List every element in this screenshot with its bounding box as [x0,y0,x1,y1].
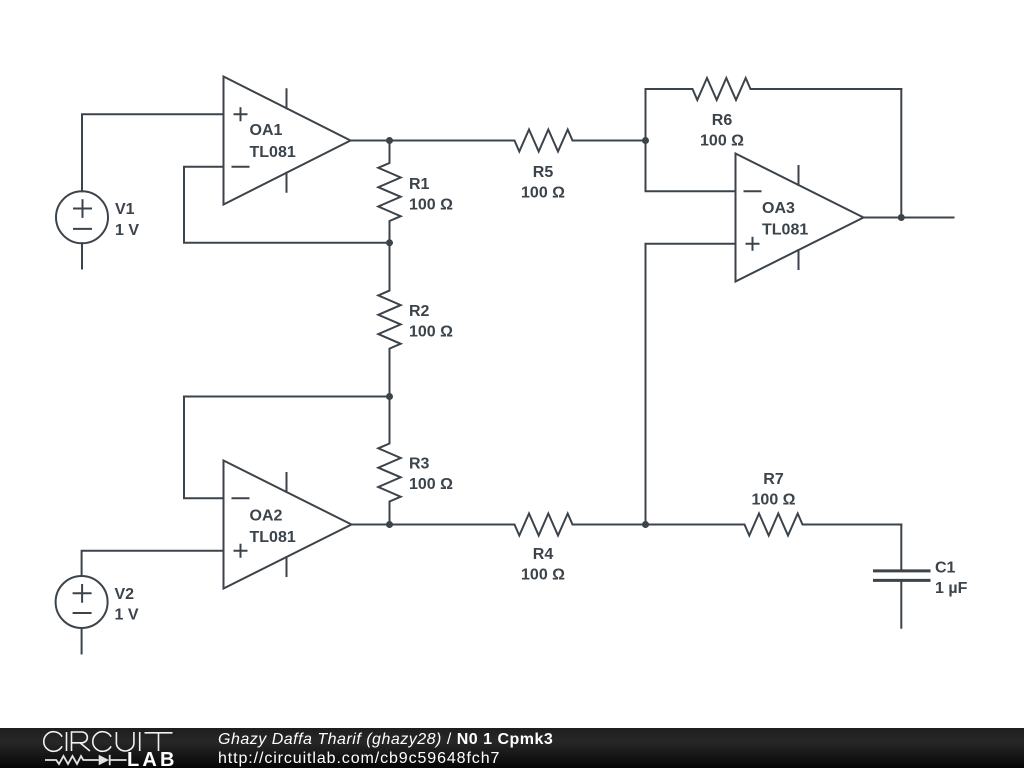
svg-text:R5: R5 [533,164,554,181]
svg-text:OA1: OA1 [250,122,283,139]
svg-text:OA2: OA2 [250,508,283,525]
svg-text:1 µF: 1 µF [935,580,968,597]
svg-text:1 V: 1 V [115,222,139,239]
svg-text:R6: R6 [712,112,733,129]
svg-text:R1: R1 [409,176,430,193]
svg-text:R3: R3 [409,456,430,473]
svg-text:V1: V1 [115,201,135,218]
svg-text:V2: V2 [115,586,135,603]
svg-text:1 V: 1 V [115,607,139,624]
svg-text:100 Ω: 100 Ω [521,567,565,584]
svg-text:100 Ω: 100 Ω [409,197,453,214]
svg-text:R2: R2 [409,303,430,320]
svg-text:100 Ω: 100 Ω [700,133,744,150]
svg-text:LAB: LAB [127,749,178,768]
svg-text:R7: R7 [763,471,784,488]
svg-text:OA3: OA3 [762,200,795,217]
svg-text:100 Ω: 100 Ω [409,324,453,341]
svg-text:TL081: TL081 [250,529,296,546]
svg-text:R4: R4 [533,546,554,563]
svg-text:100 Ω: 100 Ω [521,185,565,202]
svg-text:TL081: TL081 [762,222,808,239]
svg-text:TL081: TL081 [250,144,296,161]
svg-text:C1: C1 [935,560,956,577]
svg-text:100 Ω: 100 Ω [409,476,453,493]
svg-text:100 Ω: 100 Ω [752,492,796,509]
